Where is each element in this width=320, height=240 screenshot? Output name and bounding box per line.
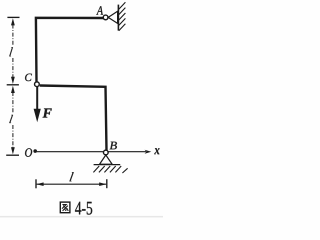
dimension dash-dot lower a bbox=[12, 92, 14, 114]
pin circle C bbox=[35, 82, 40, 87]
stray hatch right of B support bbox=[122, 168, 127, 173]
bottom dimension left tick bbox=[35, 179, 37, 188]
force F shaft bbox=[36, 87, 38, 111]
dimension dash-dot upper a bbox=[12, 25, 14, 46]
dimension arrow down lower segment bbox=[11, 147, 15, 154]
label l bottom bbox=[69, 172, 73, 181]
ground hatch 4 bbox=[110, 166, 116, 172]
label l lower bbox=[9, 115, 13, 123]
ground hatch 2 bbox=[99, 166, 105, 172]
ground line at B bbox=[94, 164, 121, 166]
wall hatch 4 bbox=[119, 18, 126, 25]
origin dot O bbox=[33, 149, 37, 153]
bottom dimension right tick bbox=[106, 179, 108, 188]
dimension dash-dot upper b bbox=[12, 58, 14, 79]
label l upper bbox=[9, 47, 13, 56]
wall line at A bbox=[117, 5, 119, 31]
label x bbox=[154, 148, 159, 154]
label B bbox=[110, 142, 117, 150]
member bar C-corner and column corner-B bbox=[40, 86, 107, 151]
wall hatch 1 bbox=[119, 2, 126, 9]
label O bbox=[25, 148, 32, 157]
bottom dimension arrow left bbox=[36, 182, 43, 186]
member bar A-corner and column corner-C bbox=[36, 18, 104, 82]
label F bbox=[43, 109, 52, 118]
force F arrowhead bbox=[34, 109, 41, 122]
support triangle at B bbox=[100, 155, 113, 164]
dimension middle tick at C level bbox=[7, 84, 19, 86]
dimension arrow up upper segment bbox=[11, 18, 15, 25]
caption text 4-5 bbox=[75, 202, 92, 215]
label A bbox=[96, 6, 103, 14]
dimension dash-dot lower b bbox=[12, 125, 14, 148]
caption character tu enclosure bbox=[60, 202, 70, 213]
ground hatch 1 bbox=[93, 166, 99, 172]
ground hatch 3 bbox=[104, 166, 110, 172]
pin circle A bbox=[103, 15, 108, 20]
x axis line bbox=[37, 151, 146, 153]
bottom dimension line bbox=[37, 183, 107, 185]
x axis arrowhead bbox=[145, 150, 152, 154]
bottom scan band bbox=[0, 216, 163, 218]
roller triangle at A bbox=[108, 11, 117, 23]
pin circle B bbox=[103, 150, 108, 155]
label C bbox=[25, 74, 32, 81]
ground hatch 5 bbox=[115, 166, 121, 172]
wall hatch 2 bbox=[119, 8, 126, 15]
dimension bottom tick at O level bbox=[6, 154, 19, 156]
bottom dimension arrow right bbox=[99, 182, 106, 186]
dimension arrow up lower segment bbox=[11, 86, 15, 93]
wall hatch 3 bbox=[119, 13, 126, 20]
wall hatch 5 bbox=[119, 24, 126, 31]
dimension top tick at A level bbox=[7, 16, 19, 18]
dimension arrow down upper segment bbox=[11, 77, 15, 84]
